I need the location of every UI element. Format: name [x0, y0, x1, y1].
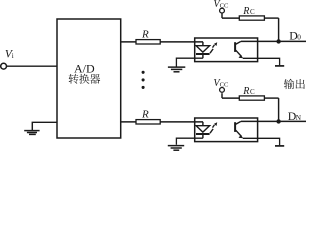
wire: A/D output bit 0 to optocoupler LED — [120, 41, 203, 43]
svg-text:R: R — [242, 6, 249, 17]
optocoupler U1 package box — [195, 38, 258, 62]
resistor R (channel N) — [136, 120, 160, 124]
optocoupler U1 light arrow — [210, 49, 213, 53]
optocoupler U2 package box — [195, 118, 258, 142]
svg-text:CC: CC — [220, 2, 229, 9]
optocoupler U2 LED cathode bar — [196, 133, 210, 135]
optocoupler U1 phototransistor emitter with arrow — [236, 50, 242, 56]
wire: collector to output D0 — [241, 40, 306, 42]
ground (A/D) — [24, 130, 39, 132]
optocoupler U2 phototransistor base bar — [234, 122, 236, 132]
Vcc supply terminal (channel 0) — [220, 8, 225, 13]
svg-text:R: R — [141, 109, 149, 121]
wire: Vi to A/D input — [7, 65, 58, 67]
ground (emitter, channel N) — [275, 145, 284, 147]
Vcc supply terminal (channel N) — [220, 88, 225, 93]
optocoupler U1 phototransistor collector — [236, 41, 241, 44]
optocoupler U2 LED anode lead — [202, 122, 204, 126]
ground (LED return, channel 0) — [168, 66, 185, 68]
node DN junction dot — [276, 119, 280, 123]
label 输出 (output) — [284, 79, 294, 89]
svg-text:N: N — [296, 113, 302, 122]
node: ellipsis dots (more bits) — [142, 71, 145, 74]
wire: emitter to ground (channel N) — [243, 138, 280, 145]
optocoupler U2 LED cathode lead — [202, 134, 204, 138]
input terminal Vi — [1, 63, 7, 69]
resistor Rc (channel 0) — [239, 16, 264, 20]
optocoupler U2 phototransistor emitter with arrow — [236, 130, 242, 136]
svg-text:C: C — [250, 88, 255, 96]
wire: LED cathode to ground (channel 0) — [176, 58, 203, 66]
wire: Vcc to Rc — [222, 17, 239, 19]
ground (LED return, channel N) — [168, 145, 184, 147]
label 转换器 — [69, 74, 79, 84]
node D0 junction dot — [276, 39, 280, 43]
wire: collector to output DN — [241, 120, 306, 122]
optocoupler U2 LED triangle — [196, 126, 210, 132]
wire: A/D to ground — [32, 122, 57, 130]
A/D converter block U0 — [57, 19, 121, 138]
wire: Vcc to Rc — [222, 97, 239, 99]
svg-text:C: C — [250, 8, 255, 16]
optocoupler U2 light arrow — [210, 129, 213, 133]
optocoupler U1 LED cathode bar — [196, 53, 210, 55]
wire: emitter to ground (channel 0) — [243, 58, 280, 65]
wire: node DN up to Rc — [278, 98, 280, 121]
ground (emitter, channel 0) — [275, 65, 284, 67]
svg-text:i: i — [12, 52, 14, 60]
svg-text:CC: CC — [220, 82, 229, 89]
wire: A/D output bit N to optocoupler LED — [120, 121, 203, 123]
wire: Rc to node corner — [264, 17, 278, 19]
resistor R (channel 0) — [136, 40, 160, 44]
wire: node D0 up to Rc — [278, 18, 280, 41]
optocoupler U2 phototransistor collector — [236, 121, 241, 124]
wire: LED cathode to ground (channel N) — [176, 138, 203, 145]
optocoupler U1 LED cathode lead — [202, 54, 204, 58]
svg-text:R: R — [242, 86, 249, 97]
svg-text:0: 0 — [297, 32, 301, 41]
resistor Rc (channel N) — [239, 96, 264, 100]
optocoupler U1 phototransistor base bar — [234, 42, 236, 52]
svg-text:A/D: A/D — [74, 62, 95, 76]
optocoupler U1 LED triangle — [196, 46, 210, 52]
wire: Rc to node corner — [264, 97, 278, 99]
optocoupler U1 LED anode lead — [202, 42, 204, 46]
svg-text:R: R — [141, 29, 149, 41]
